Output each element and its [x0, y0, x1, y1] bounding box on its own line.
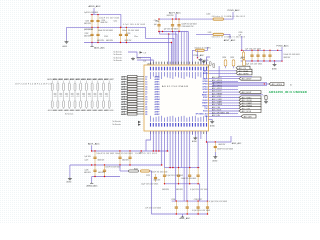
svg-text:C202: C202 — [85, 33, 89, 35]
svg-text:C229: C229 — [146, 175, 150, 177]
wire to rail ADVL — [155, 131, 157, 151]
svg-text:+2.8: +2.8 — [105, 96, 108, 98]
wire rail bottom-left — [92, 150, 169, 152]
junction — [97, 42, 98, 43]
wire filter AINP7 mid — [108, 91, 110, 101]
wire to U200 top pin — [180, 32, 182, 66]
junction — [243, 60, 244, 61]
svg-text:ADS1256_ID=0 UNUSED: ADS1256_ID=0 UNUSED — [269, 90, 307, 94]
wire pin AINP7 — [137, 111, 144, 113]
port ADC_CS — [236, 66, 250, 69]
capacitor C240 — [51, 101, 53, 108]
svg-text:ADC_REFN: ADC_REFN — [239, 72, 249, 75]
wire — [281, 47, 283, 50]
capacitor C213 — [269, 50, 271, 61]
capacitor filter 1 — [59, 94, 62, 95]
wire ADC_SCLK — [209, 110, 240, 112]
svg-text:+2.8: +2.8 — [65, 96, 68, 98]
resistor R204 — [224, 60, 227, 66]
svg-text:ADC_DRDY: ADC_DRDY — [242, 78, 253, 81]
port AINP4 — [128, 95, 138, 97]
port AINN0 — [128, 78, 138, 80]
svg-text:AGND: AGND — [67, 181, 73, 184]
wire U200 pin runner — [137, 60, 153, 65]
svg-text:GPIO2: GPIO2 — [202, 89, 207, 91]
wire filter AINP4 mid — [85, 91, 87, 101]
svg-text:L201: L201 — [208, 32, 212, 34]
svg-text:1µF 10% 16V 0603: 1µF 10% 16V 0603 — [84, 29, 93, 31]
svg-text:2.2µF 20% 16V 0603: 2.2µF 20% 16V 0603 — [166, 175, 183, 177]
wire — [172, 131, 174, 168]
wire pin AINP5 — [137, 101, 144, 103]
wire pin AINN7 — [137, 113, 144, 115]
svg-text:4.7µF 20% 6.3V 0603: 4.7µF 20% 6.3V 0603 — [192, 210, 210, 212]
resistor R214 — [74, 83, 76, 91]
svg-text:C203: C203 — [104, 36, 108, 38]
svg-text:+2.8: +2.8 — [76, 96, 79, 98]
lead — [243, 50, 245, 52]
junction — [257, 50, 258, 51]
svg-text:C208 0603 25V: C208 0603 25V — [182, 26, 195, 28]
port ADC_GPIO4 — [269, 82, 284, 85]
U200 bottom pin names inside — [149, 116, 152, 122]
svg-text:100nF 5% 50V 0603: 100nF 5% 50V 0603 — [105, 166, 120, 168]
junction — [158, 18, 159, 19]
port ADC_DRDY — [239, 77, 261, 80]
junction — [161, 164, 162, 165]
svg-text:0603 25V: 0603 25V — [125, 40, 133, 42]
wire pin AINP1 — [137, 81, 144, 83]
svg-text:0603 50V: 0603 50V — [84, 23, 92, 25]
ground AGND left — [68, 177, 72, 180]
wire fan runner — [146, 27, 175, 65]
svg-text:ADVL_ADC: ADVL_ADC — [94, 46, 105, 49]
port AINN3 — [128, 93, 138, 95]
capacitor C238 — [178, 168, 180, 184]
svg-text:PWDN: PWDN — [202, 105, 208, 107]
junction — [126, 42, 127, 43]
svg-text:ADS1256IPAGR: ADS1256IPAGR — [162, 85, 188, 88]
resistor R205 — [232, 60, 235, 66]
wire pin AINP6 — [137, 106, 144, 108]
capacitor C247 — [91, 101, 93, 108]
svg-text:No Normals: No Normals — [114, 60, 123, 62]
svg-text:ADC_GPIO3: ADC_GPIO3 — [212, 82, 222, 85]
ground AGND topleft — [131, 57, 135, 60]
svg-text:No Normals: No Normals — [114, 57, 123, 59]
junction — [91, 150, 92, 151]
svg-text:ADC_DOUT: ADC_DOUT — [242, 91, 253, 94]
svg-text:SYNC: SYNC — [203, 97, 208, 99]
port AINN2 — [128, 88, 138, 90]
wire ADC_CS — [219, 66, 252, 77]
svg-text:C234: C234 — [171, 199, 175, 201]
wire R204 — [225, 66, 227, 68]
wire rail bottom-low gnd — [172, 213, 208, 215]
wire — [180, 131, 182, 168]
wire — [192, 131, 194, 135]
svg-text:0603 25V: 0603 25V — [154, 180, 162, 182]
wire filter AINN2 mid — [68, 91, 70, 101]
wire filter AINP2 top — [74, 81, 76, 83]
wire rail top-left upper — [91, 15, 121, 28]
port AINP5 — [128, 100, 138, 102]
svg-text:C201: C201 — [101, 20, 105, 22]
junction — [251, 50, 252, 51]
svg-text:No Normals: No Normals — [113, 121, 122, 123]
capacitor C249 — [103, 101, 105, 108]
wire U200 right pin to ground — [209, 118, 213, 120]
svg-text:ADVT_ADC: ADVT_ADC — [169, 12, 181, 15]
wire rail right upper — [241, 49, 282, 51]
resistor R215 — [80, 83, 82, 91]
svg-text:ADC_DOUT: ADC_DOUT — [212, 90, 223, 93]
junction — [178, 167, 179, 168]
capacitor C210 — [251, 50, 253, 61]
svg-text:AGND: AGND — [213, 159, 219, 162]
capacitor C201 — [97, 15, 99, 28]
power port AGND_ADC — [90, 182, 93, 183]
svg-text:R206: R206 — [241, 57, 245, 59]
svg-text:1K F 2.4 1K F 2.4 1K F 2.4: 1K F 2.4 1K F 2.4 1K F 2.4 1K F 2.4 — [15, 84, 51, 86]
junction — [189, 183, 190, 184]
wire R206 — [243, 66, 245, 68]
wire — [196, 33, 213, 35]
wire — [128, 52, 137, 58]
junction — [197, 183, 198, 184]
junction — [277, 50, 278, 51]
svg-text:START: START — [202, 102, 208, 105]
inductor L200 — [213, 18, 224, 20]
lead — [243, 60, 245, 62]
wire filter AINN5 mid — [91, 91, 93, 101]
junction — [189, 167, 190, 168]
wire ADC_GPIO2 — [209, 88, 239, 90]
junction — [104, 176, 105, 177]
wire — [203, 63, 205, 65]
junction — [263, 60, 264, 61]
capacitor filter 3 — [71, 94, 74, 95]
wire filter AINP5 mid — [97, 91, 99, 101]
junction — [269, 60, 270, 61]
svg-text:L200: L200 — [206, 13, 210, 15]
wire filter AINP4 top — [85, 81, 87, 83]
capacitor C222 — [119, 151, 121, 165]
junction — [97, 14, 98, 15]
wire pin AINP4 — [137, 96, 144, 98]
svg-text:ADC_GPIO2: ADC_GPIO2 — [212, 87, 222, 90]
wire — [224, 34, 231, 38]
svg-text:No Normals: No Normals — [114, 54, 123, 56]
svg-text:0603 25V: 0603 25V — [97, 40, 105, 42]
svg-text:ADC_PWDN: ADC_PWDN — [212, 103, 223, 106]
capacitor C223 — [129, 151, 131, 165]
junction — [94, 150, 95, 151]
wire filter AINN5 bottom — [91, 108, 93, 109]
wire pin AINN5 — [137, 103, 144, 105]
capacitor C239 — [189, 168, 191, 184]
port ADC_CLKIO — [239, 99, 261, 102]
wire fan runner 2 — [160, 32, 177, 66]
port AINP3 — [128, 90, 138, 92]
ground AGND — [65, 41, 69, 44]
capacitor C2311 — [207, 201, 209, 214]
svg-text:ADVL_ADC: ADVL_ADC — [232, 142, 242, 145]
resistor R212 — [63, 83, 65, 91]
capacitor C208 — [178, 19, 180, 31]
wire pin AINN2 — [137, 88, 144, 90]
port ADC_CS0 — [239, 107, 261, 110]
svg-text:ADC_RESET: ADC_RESET — [212, 92, 223, 95]
junction — [97, 27, 98, 28]
svg-text:GPIO3: GPIO3 — [202, 84, 207, 86]
wire to bottom rail — [150, 171, 172, 214]
wire rail bottom-mid — [165, 167, 200, 169]
junction — [215, 141, 216, 142]
capacitor C200 — [91, 15, 93, 28]
wire to rail ADVL — [152, 131, 154, 151]
wire rail ADVL — [84, 43, 171, 66]
svg-text:ADC_SCLK: ADC_SCLK — [212, 109, 222, 112]
wire — [207, 57, 211, 65]
svg-text:0603 25V: 0603 25V — [167, 15, 175, 17]
svg-text:1µF 10% 16V 0603: 1µF 10% 16V 0603 — [164, 28, 178, 30]
junction — [178, 18, 179, 19]
wire rail top-left mid — [67, 26, 146, 28]
capacitor C2311 — [186, 201, 188, 214]
junction — [171, 42, 172, 43]
svg-text:0603 50V: 0603 50V — [162, 189, 170, 191]
wire — [197, 50, 199, 57]
junction — [120, 27, 121, 28]
port ADC_DOUT — [239, 91, 261, 94]
wire to U200 top pin — [178, 32, 180, 66]
wire rail top-mid upper — [158, 18, 192, 20]
junction — [197, 213, 198, 214]
resistor R220 — [108, 83, 110, 91]
svg-text:AINN7: AINN7 — [155, 113, 160, 116]
capacitor C212 — [263, 50, 265, 61]
wire filter AINN3 top — [80, 81, 82, 83]
svg-text:ADC_DIN: ADC_DIN — [244, 115, 253, 118]
svg-text:ADVT_ADC: ADVT_ADC — [224, 39, 236, 42]
port AINN5 — [128, 103, 138, 105]
wire filter AINN6 bottom — [103, 108, 105, 109]
svg-text:R204: R204 — [223, 57, 227, 59]
wire rail bottom-mid lower — [165, 183, 200, 185]
wire pin AINP3 — [137, 91, 144, 93]
capacitor C207 — [172, 19, 174, 31]
svg-text:AGND: AGND — [192, 140, 198, 143]
svg-text:25: 25 — [145, 114, 147, 116]
resistor R211 — [57, 83, 59, 91]
junction — [172, 31, 173, 32]
svg-text:CS0: CS0 — [204, 108, 207, 110]
wire ADC_CLKIO — [209, 99, 240, 101]
svg-text:+2.8: +2.8 — [99, 96, 102, 98]
wire bottom right — [207, 131, 232, 142]
wire — [178, 131, 180, 168]
wire filter AINP0 mid — [51, 91, 53, 101]
wire ADC_RESET — [209, 94, 264, 96]
wire to U200 top pin — [183, 32, 185, 66]
wire U200 pin runner — [137, 58, 151, 66]
junction — [91, 42, 92, 43]
junction — [164, 183, 165, 184]
wire ADC_REFP — [209, 70, 237, 72]
wire — [224, 12, 234, 19]
wire ADC_DRDY — [209, 78, 240, 80]
svg-text:100nF 5% 50V 0603: 100nF 5% 50V 0603 — [99, 17, 119, 19]
wire pin AINN4 — [137, 98, 144, 100]
wire long — [175, 131, 177, 201]
wire — [182, 214, 184, 217]
svg-text:+2.8: +2.8 — [94, 96, 97, 98]
port AINP7 — [128, 110, 138, 112]
svg-text:POVD_ADC: POVD_ADC — [277, 44, 289, 47]
wire — [241, 36, 243, 50]
port AINN6 — [128, 108, 138, 110]
svg-text:ADVL_ADC: ADVL_ADC — [180, 217, 191, 220]
svg-text:ADC_CS: ADC_CS — [239, 67, 247, 70]
junction — [168, 33, 169, 34]
capacitor C229 — [155, 174, 157, 182]
wire ADVL drop — [91, 145, 93, 151]
wire ADC_SPI_MISO_3V3 — [209, 113, 239, 115]
junction — [153, 150, 154, 151]
svg-text:+2.8: +2.8 — [59, 96, 62, 98]
wire — [199, 184, 201, 201]
svg-text:1nF 10% 6.3V 0603: 1nF 10% 6.3V 0603 — [145, 207, 161, 209]
port ADC_START — [239, 101, 261, 104]
capacitor filter 6 — [88, 94, 91, 95]
junction — [197, 200, 198, 201]
wire ADVT drop — [175, 14, 177, 19]
svg-text:100nF 5% 50V 0603 100nF 5% 50V: 100nF 5% 50V 0603 100nF 5% 50V 0603 — [97, 153, 133, 155]
wire filter AINP5 bottom — [97, 108, 99, 109]
svg-text:+2.8: +2.8 — [54, 96, 57, 98]
svg-text:RESET: RESET — [202, 95, 209, 97]
wire rail top-mid lower — [158, 31, 188, 33]
capacitor C250 — [108, 101, 110, 108]
svg-text:ADC_GPIO4: ADC_GPIO4 — [272, 83, 282, 86]
wire pin AINP2 — [137, 86, 144, 88]
wire filter AINN3 bottom — [80, 108, 82, 109]
junction — [207, 200, 208, 201]
resistor R216 — [85, 83, 87, 91]
ground AGND right — [273, 63, 277, 66]
ground AGND C226 — [213, 156, 217, 159]
wire to AGND — [66, 27, 68, 40]
wire pin AINN6 — [137, 108, 144, 110]
svg-text:GPIO1: GPIO1 — [202, 86, 207, 88]
svg-text:1µF 10%: 1µF 10% — [85, 156, 92, 158]
wire filter AINN2 bottom — [68, 108, 70, 109]
resistor R210 — [51, 83, 53, 91]
port AINP2 — [128, 85, 138, 87]
junction — [141, 150, 142, 151]
svg-text:ADC_GPIO0: ADC_GPIO0 — [212, 79, 222, 82]
svg-text:+2.8: +2.8 — [82, 96, 85, 98]
capacitor C206 — [158, 19, 160, 31]
junction — [176, 213, 177, 214]
wire rail right lower — [241, 60, 282, 62]
junction — [269, 50, 270, 51]
junction — [91, 164, 92, 165]
svg-text:Dx: Dx — [290, 84, 292, 86]
wire fan — [168, 34, 170, 65]
wire filter AINP0 bottom — [51, 108, 53, 109]
junction — [187, 200, 188, 201]
DNI arrow top — [140, 51, 143, 53]
resistor R213 — [68, 83, 70, 91]
wire ADC_CS0 — [209, 107, 240, 109]
wire filter AINN0 top — [57, 81, 59, 83]
wire to U200 top pin — [186, 32, 188, 66]
wire feed right — [207, 142, 209, 201]
svg-text:0603 50V: 0603 50V — [106, 40, 114, 42]
capacitor filter 0 — [54, 94, 57, 95]
highlight box ADC_GPIO3 — [214, 82, 267, 85]
wire rail bottom-left low — [92, 176, 120, 178]
wire — [164, 131, 166, 168]
svg-text:ADC_GPIO1: ADC_GPIO1 — [212, 84, 222, 87]
junction — [178, 183, 179, 184]
wire ADC_DOUT — [209, 91, 240, 93]
capacitor filter 2 — [65, 94, 68, 95]
svg-text:100nF 5% 50V 0603: 100nF 5% 50V 0603 — [284, 54, 300, 56]
wire pin AINN3 — [137, 93, 144, 95]
port AINP1 — [128, 80, 138, 82]
svg-text:4.7µF 10% 6.3V 0603: 4.7µF 10% 6.3V 0603 — [123, 24, 145, 26]
port AINN7 — [128, 113, 138, 115]
op-amp U200 ADC body — [144, 65, 209, 131]
capacitor C246 — [85, 101, 87, 108]
svg-text:ADC_START: ADC_START — [212, 101, 223, 104]
svg-text:2.2k: 2.2k — [143, 61, 146, 63]
wire filter AINN0 bottom — [57, 108, 59, 109]
svg-text:ADVL_ADC: ADVL_ADC — [88, 143, 100, 146]
svg-text:ADC_SCLK: ADC_SCLK — [242, 110, 252, 113]
wire ADC_GPIO3 — [209, 83, 265, 85]
junction — [104, 164, 105, 165]
capacitor C230.0 — [104, 165, 106, 177]
wire pin AINN1 — [137, 83, 144, 85]
svg-text:CLKIO: CLKIO — [202, 100, 208, 102]
inductor L201 — [213, 33, 224, 35]
resistor R240 — [129, 170, 139, 172]
capacitor C211 — [257, 50, 259, 61]
svg-text:SPI_MISO_3V3: SPI_MISO_3V3 — [196, 113, 208, 115]
junction — [175, 18, 176, 19]
capacitor C203 — [97, 27, 99, 42]
ground AGND bottom — [193, 137, 197, 140]
svg-text:0603 50V: 0603 50V — [84, 172, 92, 174]
wire to rail ADVL — [166, 131, 168, 151]
svg-text:ADC_CS0: ADC_CS0 — [212, 106, 220, 109]
svg-text:0603 50V: 0603 50V — [84, 36, 92, 38]
junction — [94, 164, 95, 165]
svg-text:100nF 5% 50V 0603: 100nF 5% 50V 0603 — [151, 171, 167, 173]
resistor R206 — [209, 62, 211, 66]
junction — [120, 27, 121, 28]
svg-text:4.7µF 20% 6.3V 0603: 4.7µF 20% 6.3V 0603 — [209, 201, 227, 203]
wire filter AINP1 mid — [63, 91, 65, 101]
U200 top pin names inside — [149, 72, 152, 79]
svg-text:R205: R205 — [231, 57, 235, 59]
junction — [91, 14, 92, 15]
svg-text:No Normals: No Normals — [113, 124, 122, 126]
